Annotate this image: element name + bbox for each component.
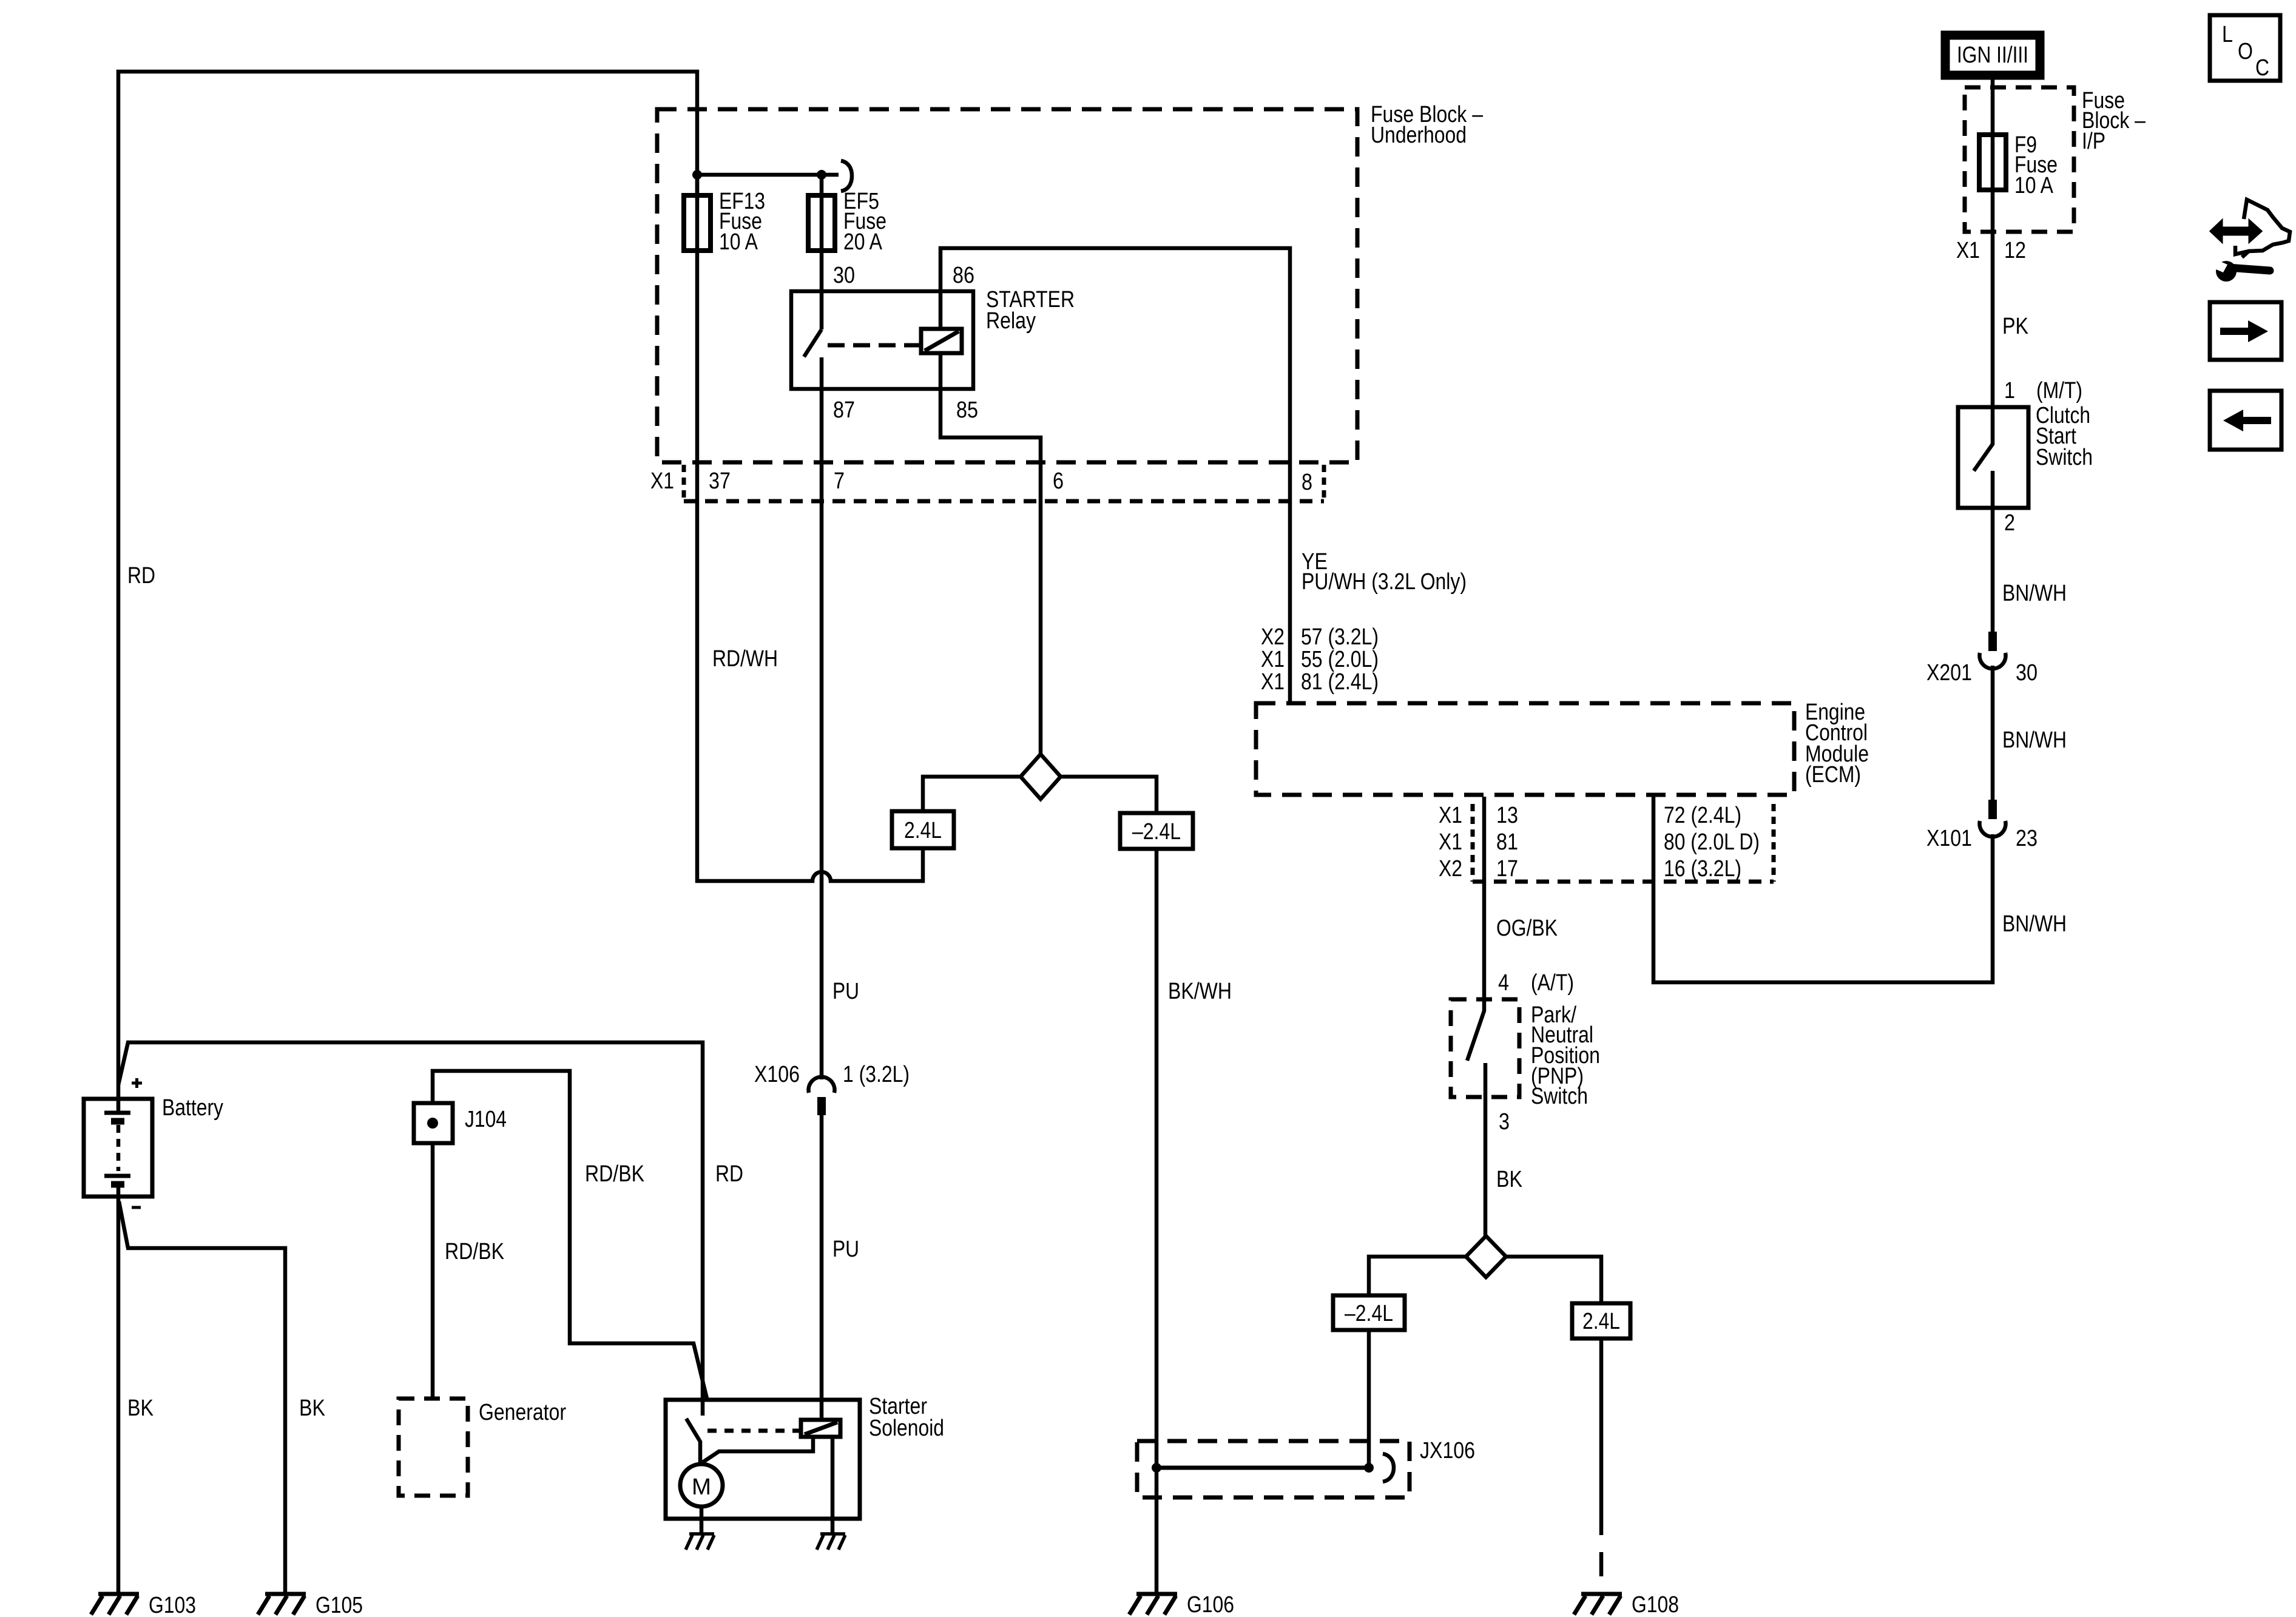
- JX106 node dot right: [1364, 1463, 1374, 1473]
- wire relay pin 85 to pin 6: [940, 353, 1041, 755]
- fuse EF13: [684, 195, 711, 251]
- svg-text:16 (3.2L): 16 (3.2L): [1664, 856, 1741, 882]
- tag 2.4L (left): [892, 811, 954, 848]
- svg-text:1: 1: [2004, 378, 2015, 403]
- relay coil: [921, 329, 962, 353]
- svg-text:Switch: Switch: [2036, 445, 2093, 470]
- connector band X1 bottom dashed line: [684, 499, 1324, 504]
- legend back arrow box: [2210, 391, 2281, 450]
- battery plus sign: [132, 1078, 142, 1088]
- wire 2.4L tag to G108: [1599, 1338, 1604, 1511]
- splice diamond (BK): [1466, 1236, 1506, 1277]
- wire relay pin 86 to pin 8 (YE): [940, 248, 1290, 703]
- tag 2.4L (far right): [1572, 1303, 1630, 1338]
- wire BK/WH -2.4L tag to G106: [1155, 849, 1159, 1593]
- clutch start switch box: [1958, 407, 2028, 508]
- relay switch blade: [804, 329, 822, 357]
- svg-text:10 A: 10 A: [719, 229, 758, 255]
- svg-text:X201: X201: [1926, 660, 1972, 686]
- svg-text:RD/BK: RD/BK: [585, 1161, 644, 1187]
- svg-text:Underhood: Underhood: [1371, 123, 1467, 148]
- svg-text:X1: X1: [1439, 803, 1462, 828]
- svg-text:17: 17: [1496, 856, 1518, 882]
- svg-text:81 (2.4L): 81 (2.4L): [1301, 669, 1379, 695]
- svg-text:BN/WH: BN/WH: [2002, 911, 2067, 937]
- svg-text:(M/T): (M/T): [2036, 378, 2082, 403]
- starter relay box: [791, 291, 973, 389]
- svg-text:X1: X1: [1261, 647, 1285, 672]
- junction block JX106 dashed box: [1137, 1441, 1410, 1497]
- svg-text:Solenoid: Solenoid: [869, 1416, 944, 1441]
- junction J104 box: [414, 1103, 453, 1143]
- svg-text:72 (2.4L): 72 (2.4L): [1664, 803, 1741, 828]
- ground G106: [1129, 1592, 1234, 1617]
- svg-text:80 (2.0L D): 80 (2.0L D): [1664, 829, 1760, 855]
- wire battery negative to G103: [116, 1184, 121, 1593]
- battery minus sign: [132, 1206, 141, 1209]
- svg-text:BK: BK: [1496, 1167, 1522, 1192]
- svg-text:C: C: [2255, 55, 2269, 81]
- svg-text:10 A: 10 A: [2014, 173, 2054, 198]
- svg-text:2: 2: [2004, 510, 2015, 536]
- svg-text:J104: J104: [465, 1107, 507, 1132]
- wire dashed to G108: [1599, 1511, 1604, 1590]
- wire coil bottom link to motor: [703, 1437, 813, 1462]
- svg-text:–2.4L: –2.4L: [1345, 1301, 1393, 1326]
- svg-text:85: 85: [956, 397, 978, 423]
- wire battery negative branch to G105: [119, 1201, 285, 1593]
- generator dashed box: [399, 1399, 468, 1496]
- wire diamond to 2.4L tag left: [923, 777, 1021, 811]
- svg-text:X1: X1: [1956, 238, 1980, 263]
- svg-text:M: M: [692, 1474, 711, 1500]
- svg-text:(ECM): (ECM): [1805, 762, 1861, 788]
- wire diamond to 2.4L tag: [1506, 1257, 1601, 1303]
- svg-text:X2: X2: [1439, 856, 1462, 882]
- svg-text:PU: PU: [832, 1237, 859, 1262]
- wire EF13 through fuse down to pin 37: [695, 175, 700, 501]
- wire coil to ground: [831, 1437, 835, 1535]
- svg-text:13: 13: [1496, 803, 1518, 828]
- svg-text:BN/WH: BN/WH: [2002, 581, 2067, 606]
- PNP switch blade: [1467, 999, 1484, 1061]
- svg-text:RD: RD: [127, 563, 155, 589]
- clutch switch blade: [1974, 407, 1993, 471]
- fuse EF5: [808, 195, 835, 251]
- svg-text:O: O: [2238, 39, 2253, 64]
- wire X201 to X101: [1991, 666, 1995, 800]
- wire ECM pin 72 to BN/WH: [1653, 797, 1993, 982]
- power tag IGN II/III: [1945, 35, 2040, 75]
- svg-text:4: 4: [1498, 970, 1509, 996]
- JX106 node dot left: [1152, 1463, 1161, 1473]
- wire 2.4L tag to RD/WH with hop: [697, 501, 923, 881]
- svg-text:RD: RD: [715, 1161, 743, 1187]
- ground motor (small): [686, 1534, 714, 1550]
- connector band X1 right tick: [1322, 465, 1326, 499]
- ECM connector band dotted edges: [1471, 804, 1475, 882]
- svg-text:Relay: Relay: [986, 308, 1036, 334]
- battery plate long top: [104, 1111, 130, 1115]
- node junction dot at EF5 top: [817, 170, 826, 180]
- connector hook at EF5 feed: [841, 161, 852, 191]
- svg-text:37: 37: [709, 468, 731, 494]
- connector X106: [809, 1077, 835, 1115]
- svg-text:PU/WH (3.2L Only): PU/WH (3.2L Only): [1302, 569, 1467, 595]
- wire EF5 through fuse to relay pin 30: [820, 175, 824, 329]
- svg-text:6: 6: [1053, 468, 1064, 494]
- wire PU to solenoid: [820, 1115, 824, 1420]
- wire relay pin 87 (RD/WH feed down): [820, 357, 824, 1079]
- svg-text:2.4L: 2.4L: [1582, 1309, 1620, 1334]
- JX106 connector hook: [1383, 1454, 1394, 1482]
- svg-text:JX106: JX106: [1420, 1438, 1475, 1463]
- svg-text:BK/WH: BK/WH: [1168, 979, 1232, 1004]
- svg-text:BK: BK: [299, 1396, 325, 1421]
- svg-text:G108: G108: [1632, 1592, 1679, 1617]
- wire PNP pin 3 (BK): [1484, 1063, 1488, 1237]
- park/neutral position switch dashed box: [1451, 999, 1519, 1097]
- svg-text:1 (3.2L): 1 (3.2L): [843, 1062, 910, 1087]
- battery dashed center: [116, 1125, 121, 1171]
- tag -2.4L (center): [1120, 813, 1193, 849]
- svg-text:30: 30: [833, 263, 855, 288]
- solenoid actuator dashed link: [707, 1429, 801, 1433]
- starter solenoid box: [666, 1400, 860, 1519]
- svg-text:12: 12: [2004, 238, 2026, 263]
- tag -2.4L (right-center): [1333, 1295, 1405, 1330]
- svg-text:20 A: 20 A: [843, 229, 883, 255]
- svg-text:RD/WH: RD/WH: [712, 646, 778, 672]
- svg-text:57 (3.2L): 57 (3.2L): [1301, 624, 1379, 650]
- svg-text:7: 7: [834, 468, 845, 494]
- connector band X1 left tick: [682, 465, 686, 499]
- node junction dot on EF13 feed: [692, 170, 702, 180]
- wire J104 to RD/BK riser: [433, 1071, 707, 1401]
- svg-text:2.4L: 2.4L: [904, 818, 942, 843]
- svg-text:X1: X1: [1439, 829, 1462, 855]
- legend LOC box: [2210, 15, 2280, 81]
- svg-text:PK: PK: [2002, 314, 2028, 339]
- connector X201: [1980, 632, 2006, 669]
- wire jumper to fuse EF5: [697, 173, 839, 177]
- fuse F9: [1979, 135, 2006, 190]
- wire diamond to -2.4L tag: [1369, 1257, 1466, 1295]
- junction J104 dot: [427, 1118, 438, 1129]
- svg-text:RD/BK: RD/BK: [445, 1239, 504, 1264]
- svg-text:87: 87: [833, 397, 855, 423]
- ground G105: [258, 1593, 363, 1617]
- legend diagnostic icon (arrow, outline, wrench): [2210, 200, 2290, 282]
- svg-text:IGN II/III: IGN II/III: [1957, 42, 2028, 68]
- solenoid switch blade: [686, 1419, 700, 1462]
- engine control module dashed box: [1256, 703, 1794, 795]
- svg-text:(A/T): (A/T): [1531, 970, 1574, 996]
- svg-text:23: 23: [2016, 826, 2038, 851]
- solenoid coil: [801, 1420, 840, 1437]
- svg-text:L: L: [2222, 22, 2233, 47]
- svg-text:BN/WH: BN/WH: [2002, 727, 2067, 753]
- wire IGN to clutch switch: [1991, 79, 1995, 407]
- wire OG/BK from ECM: [1482, 797, 1487, 999]
- splice diamond (relay pin 6): [1021, 754, 1061, 799]
- connector X101: [1980, 800, 2006, 837]
- svg-text:G106: G106: [1187, 1592, 1234, 1617]
- motor M circle: [680, 1464, 723, 1507]
- svg-text:BK: BK: [127, 1396, 154, 1421]
- legend forward arrow box: [2210, 302, 2281, 360]
- fuse block I/P dashed box: [1965, 87, 2074, 232]
- ground G103: [91, 1593, 196, 1617]
- svg-text:X2: X2: [1261, 624, 1285, 650]
- ground G108: [1574, 1592, 1679, 1617]
- svg-text:3: 3: [1499, 1109, 1510, 1135]
- svg-text:86: 86: [953, 263, 974, 288]
- svg-text:X101: X101: [1926, 826, 1972, 851]
- wire branch battery+ to starter (horizontal): [118, 1042, 703, 1416]
- svg-text:–2.4L: –2.4L: [1132, 819, 1181, 845]
- JX106 bus bar: [1156, 1466, 1369, 1470]
- svg-text:Generator: Generator: [479, 1400, 566, 1425]
- svg-text:PU: PU: [832, 979, 859, 1004]
- battery plate long bottom: [104, 1174, 130, 1178]
- svg-text:I/P: I/P: [2082, 129, 2105, 154]
- svg-text:X106: X106: [754, 1062, 800, 1087]
- wire clutch pin 2 down: [1991, 471, 1995, 633]
- wire RD battery-positive loop (top-left): [118, 72, 697, 1112]
- svg-text:55 (2.0L): 55 (2.0L): [1301, 647, 1379, 672]
- fuse block underhood dashed box: [657, 109, 1357, 462]
- svg-text:81: 81: [1496, 829, 1518, 855]
- battery box: [84, 1099, 152, 1197]
- svg-text:G103: G103: [149, 1593, 196, 1617]
- svg-text:G105: G105: [316, 1593, 363, 1617]
- svg-text:OG/BK: OG/BK: [1496, 916, 1558, 941]
- battery plate short top: [111, 1118, 124, 1125]
- wire -2.4L tag to JX106: [1367, 1330, 1371, 1468]
- svg-text:X1: X1: [650, 468, 674, 494]
- relay actuator dashed link: [828, 343, 921, 348]
- wire motor to ground: [700, 1507, 704, 1535]
- svg-text:8: 8: [1302, 470, 1312, 495]
- svg-text:30: 30: [2016, 660, 2038, 686]
- svg-text:Switch: Switch: [1531, 1084, 1588, 1109]
- wire diamond to -2.4L tag: [1061, 777, 1156, 813]
- wire J104 to generator: [431, 1143, 435, 1399]
- battery plate short bottom: [111, 1181, 124, 1188]
- svg-text:Battery: Battery: [162, 1095, 223, 1121]
- svg-text:X1: X1: [1261, 669, 1285, 695]
- ground coil (small): [817, 1534, 845, 1550]
